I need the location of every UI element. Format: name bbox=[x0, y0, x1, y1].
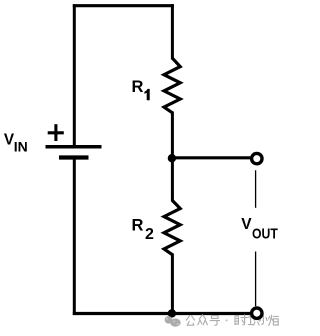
label R1 bbox=[132, 78, 150, 100]
battery V1 long plate bbox=[46, 145, 102, 149]
wire thin output upper segment bbox=[255, 170, 257, 208]
battery V1 short plate bbox=[59, 155, 89, 159]
svg-text:V: V bbox=[241, 216, 252, 233]
wire middle horizontal to output bbox=[172, 156, 250, 159]
node junction dot lower bbox=[168, 309, 176, 317]
svg-text:R: R bbox=[132, 216, 144, 234]
resistor R1 bbox=[164, 58, 180, 113]
wire bottom horizontal bbox=[73, 312, 251, 315]
wire left vertical lower bbox=[73, 158, 76, 316]
watermark text gongzhonghao shepin xiaoguan bbox=[186, 315, 278, 326]
wire right vertical middle bbox=[171, 112, 174, 202]
svg-text:R: R bbox=[132, 78, 144, 96]
battery V1 plus sign bbox=[48, 124, 64, 141]
label VIN bbox=[4, 132, 28, 155]
svg-text:2: 2 bbox=[145, 226, 154, 243]
node junction dot upper bbox=[168, 154, 176, 162]
output terminal lower bbox=[252, 308, 262, 318]
wire right vertical upper bbox=[171, 4, 174, 59]
label VOUT bbox=[241, 216, 278, 243]
svg-text:IN: IN bbox=[14, 139, 28, 155]
wire left vertical upper bbox=[73, 4, 76, 146]
wire thin output lower segment bbox=[255, 252, 257, 307]
wire top horizontal bbox=[73, 4, 174, 7]
svg-text:OUT: OUT bbox=[252, 227, 278, 243]
label R2 bbox=[132, 216, 155, 243]
resistor R2 bbox=[164, 201, 180, 255]
output terminal upper bbox=[252, 153, 262, 163]
wire right vertical lower bbox=[171, 254, 174, 316]
watermark icon bbox=[165, 316, 181, 327]
